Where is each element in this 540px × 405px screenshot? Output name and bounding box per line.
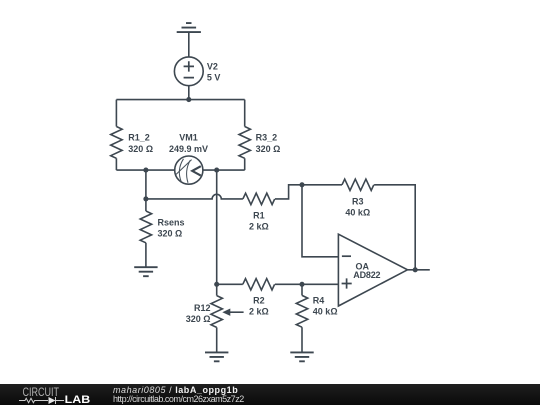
svg-text:LAB: LAB <box>65 394 91 405</box>
svg-text:320 Ω: 320 Ω <box>186 314 211 324</box>
svg-text:V2: V2 <box>207 62 218 72</box>
svg-text:249.9 mV: 249.9 mV <box>169 144 208 154</box>
svg-text:R3_2: R3_2 <box>256 133 278 143</box>
svg-text:Rsens: Rsens <box>158 217 185 227</box>
svg-text:R3: R3 <box>352 196 364 206</box>
svg-text:R12: R12 <box>194 303 211 313</box>
svg-text:320 Ω: 320 Ω <box>256 144 281 154</box>
svg-text:40 kΩ: 40 kΩ <box>313 306 338 316</box>
svg-text:40 kΩ: 40 kΩ <box>345 207 370 217</box>
svg-text:2 kΩ: 2 kΩ <box>249 222 269 232</box>
svg-text:AD822: AD822 <box>353 270 380 280</box>
svg-text:CIRCUIT: CIRCUIT <box>23 385 60 399</box>
svg-text:320 Ω: 320 Ω <box>158 228 183 238</box>
svg-text:R4: R4 <box>313 295 325 305</box>
svg-text:R1: R1 <box>253 211 265 221</box>
svg-text:R1_2: R1_2 <box>128 133 150 143</box>
svg-text:320 Ω: 320 Ω <box>128 144 153 154</box>
svg-text:5 V: 5 V <box>207 73 221 83</box>
svg-text:VM1: VM1 <box>179 133 198 143</box>
svg-text:2 kΩ: 2 kΩ <box>249 306 269 316</box>
svg-text:R2: R2 <box>253 295 265 305</box>
